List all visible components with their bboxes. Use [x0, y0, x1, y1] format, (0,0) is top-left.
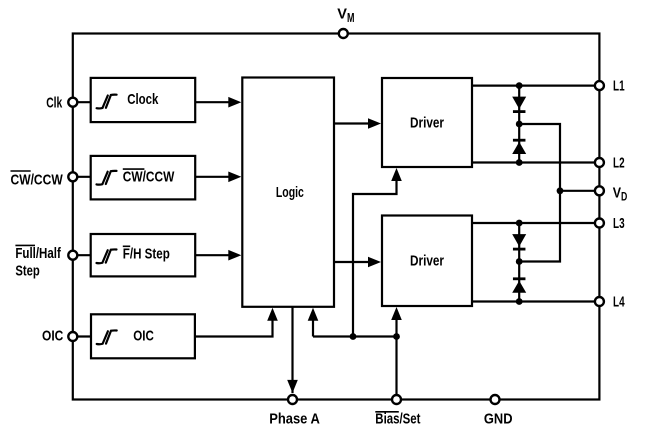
svg-text:V: V [613, 184, 621, 201]
svg-text:V: V [337, 6, 347, 23]
svg-text:Step: Step [15, 263, 39, 280]
svg-text:L2: L2 [613, 155, 625, 172]
svg-text:Full/Half: Full/Half [15, 245, 61, 262]
svg-text:L4: L4 [613, 294, 625, 311]
svg-text:CW/CCW: CW/CCW [11, 172, 64, 189]
svg-text:Driver: Driver [410, 253, 444, 270]
svg-text:GND: GND [484, 410, 513, 427]
svg-text:Clk: Clk [46, 94, 63, 111]
svg-text:OIC: OIC [133, 328, 154, 345]
svg-text:M: M [347, 11, 355, 25]
svg-text:L1: L1 [613, 78, 625, 95]
svg-text:CW/CCW: CW/CCW [123, 169, 175, 186]
svg-text:Bias/Set: Bias/Set [375, 410, 420, 427]
svg-text:Phase A: Phase A [269, 410, 320, 427]
svg-text:OIC: OIC [42, 327, 63, 344]
svg-text:L3: L3 [613, 215, 625, 232]
svg-text:F/H Step: F/H Step [123, 246, 170, 263]
svg-text:Driver: Driver [410, 115, 444, 132]
svg-text:Logic: Logic [276, 184, 304, 201]
svg-text:Clock: Clock [127, 91, 159, 108]
svg-text:D: D [621, 190, 627, 204]
